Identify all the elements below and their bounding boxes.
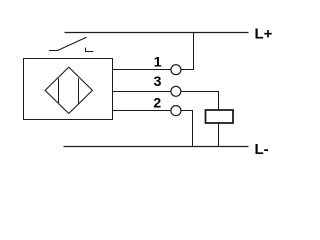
svg-text:1: 1 [154, 53, 162, 69]
wire: load bottom to L- [218, 123, 220, 147]
switch S (NO contact) lever [58, 37, 87, 50]
wire: terminal 2 to drop [181, 110, 193, 112]
load resistor rectangle [206, 110, 234, 123]
switch S (NO contact) left lead [49, 50, 58, 52]
wire: drop from pin 3 wire to load top [218, 91, 220, 111]
switch S (NO contact) fixed contact bracket [86, 48, 94, 52]
svg-text:3: 3 [154, 73, 162, 89]
proximity sensor symbol: diamond [45, 67, 92, 113]
svg-text:L-: L- [255, 141, 269, 158]
wire: terminal 3 to load drop [181, 91, 219, 93]
wire: pin 3 stub from box [113, 91, 172, 93]
wire: pin 1 stub from box [113, 69, 172, 71]
wire: terminal 1 to riser [181, 69, 194, 71]
sensor body box [24, 59, 113, 120]
svg-text:2: 2 [153, 95, 161, 111]
svg-text:L+: L+ [255, 26, 273, 43]
terminal 1 circle [171, 65, 181, 75]
terminal 2 circle [171, 106, 181, 116]
wire: L- supply rail [64, 146, 249, 148]
wire: L+ supply rail [65, 32, 249, 34]
wire: pin 2 stub from box [113, 110, 172, 112]
proximity sensor symbol: right chord [78, 78, 80, 103]
terminal 3 circle [171, 86, 181, 96]
proximity sensor symbol: left chord [58, 78, 60, 103]
wire: pin 1 riser to L+ [193, 33, 195, 71]
wire: pin 2 drop to L- [192, 110, 194, 147]
